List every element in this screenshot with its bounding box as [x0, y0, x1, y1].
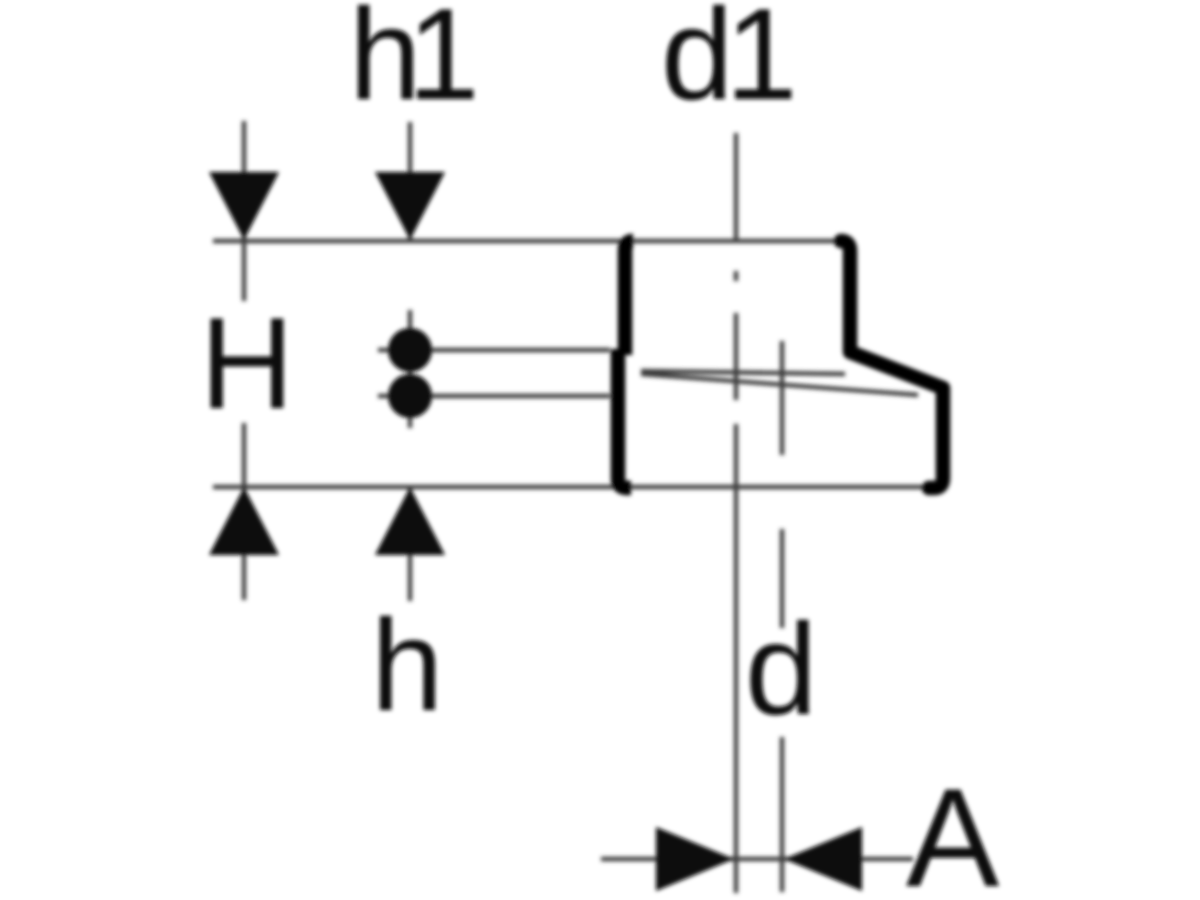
svg-text:A: A: [906, 759, 1000, 900]
arrowhead H (up, tip y=487 at x=244): [209, 487, 279, 555]
centerline d1 (dash-dot, x=736): [734, 133, 738, 893]
arrowhead A right (left-pointing, tip x=782): [784, 827, 862, 891]
wire h1 dimension stem: [408, 122, 412, 240]
node 1 connection dot: [388, 328, 432, 372]
wire H dimension lower stem: [242, 423, 246, 600]
wire h dimension stem: [408, 487, 412, 601]
node 2 connection dot: [388, 374, 432, 418]
arrowhead h (up, tip y=487 at x=410): [375, 487, 445, 555]
dimension line H/h bottom extension (horizontal, y=487): [213, 485, 925, 489]
dimension line H/h1 top extension (horizontal, y=241): [213, 239, 843, 243]
svg-text:h: h: [371, 592, 443, 738]
dimension line A (horizontal, y=859): [601, 857, 913, 861]
arrowhead h1 left (down, tip y=240 at x=244): [209, 172, 279, 240]
svg-text:H: H: [200, 290, 294, 436]
svg-text:h1: h1: [349, 0, 473, 127]
fitting inner cone lower edge: [641, 374, 918, 395]
arrowhead h1 (down, tip y=240 at x=410): [375, 172, 445, 240]
fitting body right outline (thick): [841, 241, 943, 488]
wire node 2 leader line: [378, 394, 610, 398]
svg-text:d: d: [745, 596, 817, 742]
centerline d (dash-dot, x=782): [780, 341, 784, 892]
wire node 1 leader line: [378, 348, 610, 352]
wire H dimension upper stem: [242, 121, 246, 301]
fitting inner cone upper edge: [641, 371, 845, 374]
arrowhead A left (right-pointing, tip x=736): [656, 827, 734, 891]
fitting body left outline (thick): [625, 241, 633, 355]
wire node crosshair vertical: [408, 310, 412, 428]
svg-text:d1: d1: [661, 0, 791, 127]
